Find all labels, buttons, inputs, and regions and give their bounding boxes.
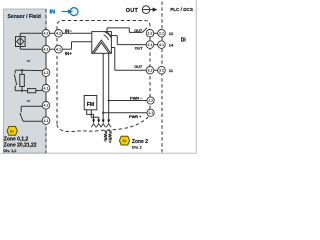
- svg-text:DI: DI: [181, 38, 187, 44]
- hazardous zone dashed line (gray border): [45, 9, 47, 153]
- relay contact arm: [142, 28, 147, 33]
- svg-text:IN: IN: [50, 9, 56, 15]
- svg-text:PWR −: PWR −: [130, 96, 143, 101]
- sensor S3 (plain switch): [20, 106, 43, 121]
- svg-text:1.2: 1.2: [148, 99, 153, 103]
- wires field-to-device (IN): [50, 33, 92, 49]
- PLC/DCS dashed separation line: [161, 2, 163, 154]
- terminal 1.2: [147, 97, 154, 104]
- svg-text:OUT: OUT: [135, 47, 144, 51]
- svg-text:3.1: 3.1: [159, 43, 164, 47]
- svg-text:4.1: 4.1: [44, 87, 49, 91]
- svg-text:4.2: 4.2: [44, 32, 49, 36]
- Ex symbol zone 0: [7, 127, 17, 136]
- svg-text:2.1: 2.1: [148, 43, 153, 47]
- terminal 1.1: [147, 109, 154, 116]
- svg-text:Div. 2: Div. 2: [132, 145, 142, 149]
- terminal 4.1 field a: [42, 45, 50, 53]
- left branch with switch: [15, 69, 22, 71]
- stub 2.2-2.1: [149, 37, 151, 41]
- output cross-links: [150, 33, 158, 70]
- svg-text:4.2: 4.2: [44, 71, 49, 75]
- terminal 3.1 plc: [158, 41, 166, 49]
- terminal 4.2 field c: [42, 102, 50, 110]
- IN symbol: [50, 8, 79, 16]
- wire PWR+: [102, 112, 147, 114]
- svg-text:or: or: [27, 59, 31, 63]
- wire IN-: [50, 32, 55, 34]
- svg-text:FM: FM: [87, 102, 95, 108]
- svg-text:4.1: 4.1: [56, 47, 61, 51]
- terminal 4.2 field a: [42, 30, 50, 38]
- svg-text:4.2: 4.2: [56, 32, 61, 36]
- svg-text:or: or: [27, 99, 31, 103]
- svg-text:IN+: IN+: [65, 51, 73, 56]
- terminal 2.1: [146, 41, 154, 49]
- field terminal bus line: [45, 33, 47, 120]
- sensor S1 (NAMUR proximity): [16, 33, 43, 49]
- svg-text:PWR +: PWR +: [129, 114, 142, 119]
- svg-text:2.2: 2.2: [148, 31, 153, 35]
- svg-text:OUT: OUT: [134, 65, 143, 69]
- bus connector arrows: [92, 120, 110, 124]
- terminal 2.2: [146, 29, 154, 37]
- power verticals: [103, 53, 109, 120]
- terminal 3.2 plc: [158, 66, 166, 74]
- terminal 2.2 plc: [158, 29, 166, 37]
- frame right/bottom border: [195, 0, 197, 153]
- sensor/field gray zone: [4, 9, 47, 153]
- svg-text:Div. 1,2: Div. 1,2: [3, 149, 16, 153]
- junction dots: [21, 69, 23, 71]
- svg-text:PLC / DCS: PLC / DCS: [170, 7, 193, 12]
- terminal 4.1 field b: [42, 85, 50, 93]
- resistor R series horizontal: [22, 90, 28, 92]
- svg-text:4.2: 4.2: [44, 104, 49, 108]
- svg-text:4.1: 4.1: [44, 119, 49, 123]
- terminal 3.2: [146, 66, 154, 74]
- terminal circles: field column: [42, 30, 50, 125]
- svg-text:IN−: IN−: [65, 29, 73, 34]
- terminal circles: device output: [146, 29, 154, 116]
- wire B (to 14): [111, 36, 146, 45]
- wire IN+: [50, 48, 55, 50]
- svg-text:14: 14: [169, 42, 174, 47]
- wire A (to contact 12): [107, 28, 147, 33]
- svg-text:Ex: Ex: [10, 129, 14, 133]
- svg-text:PWR-: PWR-: [103, 130, 108, 142]
- terminal 4.1 field c: [42, 117, 50, 125]
- svg-text:Zone 20,21,22: Zone 20,21,22: [4, 143, 37, 149]
- svg-text:PWR+: PWR+: [108, 130, 113, 143]
- svg-text:OUT: OUT: [126, 8, 139, 14]
- wire PWR-: [108, 99, 147, 101]
- wire S1 top: [19, 33, 21, 36]
- svg-text:4.1: 4.1: [44, 47, 49, 51]
- svg-text:OUT: OUT: [134, 29, 143, 33]
- terminal 4.2 field b: [42, 69, 50, 77]
- wire S1 bottom: [19, 47, 21, 50]
- svg-text:3.2: 3.2: [148, 68, 153, 72]
- Ex symbol zone 2: [119, 136, 129, 145]
- wire C (to 11): [111, 48, 146, 71]
- FM wires to bus: [87, 110, 94, 120]
- terminal 4.2 device: [55, 30, 63, 38]
- svg-text:12: 12: [169, 31, 174, 36]
- wire top: [22, 69, 43, 71]
- terminal circles: device input: [55, 30, 63, 54]
- svg-text:Ex: Ex: [122, 139, 126, 143]
- bus connector sockets: [91, 124, 111, 128]
- OUT symbol: [126, 6, 158, 14]
- svg-text:3.2: 3.2: [159, 68, 164, 72]
- sensor S2 (switch with resistors): [14, 69, 43, 93]
- direction flag: [105, 32, 111, 38]
- svg-text:2.2: 2.2: [159, 31, 164, 35]
- device dashed outline: [57, 21, 150, 132]
- isolator U1: [92, 32, 112, 54]
- resistor R vertical: [21, 70, 23, 74]
- svg-text:Zone 2: Zone 2: [132, 139, 148, 145]
- svg-text:Sensor / Field: Sensor / Field: [8, 14, 41, 20]
- terminal 4.1 device: [55, 45, 63, 53]
- FM module: [84, 96, 99, 120]
- svg-text:1.1: 1.1: [148, 111, 153, 115]
- terminal circles: PLC side: [158, 29, 166, 74]
